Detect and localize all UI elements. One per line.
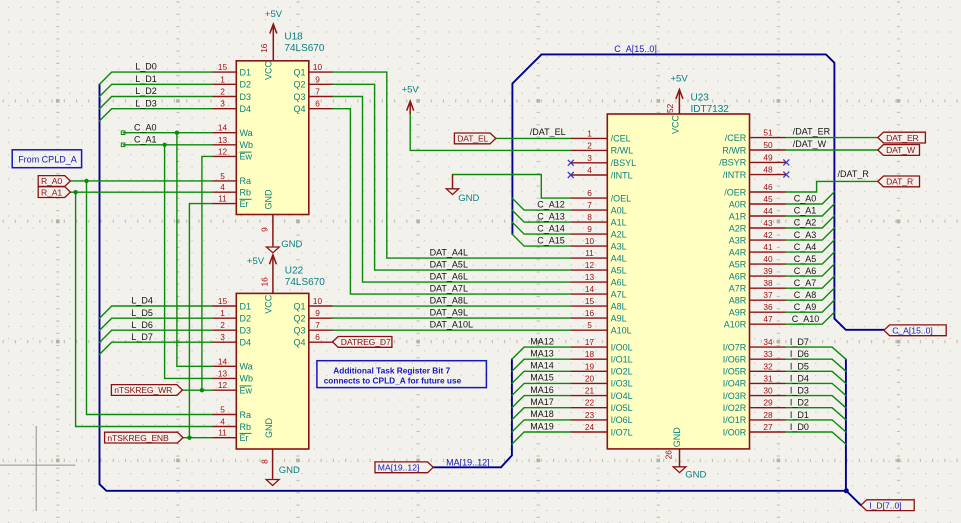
global label I_D[7..0] (861, 500, 914, 511)
svg-text:D2: D2 (240, 314, 252, 324)
svg-text:10: 10 (585, 236, 595, 246)
net label MA14 (530, 361, 554, 371)
net label L_D0 (135, 62, 157, 72)
U22 pin 11 (Er) (213, 428, 252, 443)
svg-text:D3: D3 (240, 92, 252, 102)
U23 pin 3 (/BSYL) (571, 153, 636, 168)
svg-text:22: 22 (585, 398, 595, 408)
wire DAT_A8L (U22 Q1 to U23 A8L) (332, 305, 571, 307)
svg-text:VCC: VCC (263, 294, 273, 314)
net label I_D3 (790, 386, 809, 396)
svg-text:A9R: A9R (729, 308, 747, 318)
svg-text:+5V: +5V (671, 74, 689, 85)
svg-text:15: 15 (585, 296, 595, 306)
net label DAT_A10L (430, 320, 473, 330)
wire /DAT_R (U23 /OER to DAT_R label) (786, 181, 878, 192)
net label I_D0 (790, 422, 809, 432)
svg-text:14: 14 (218, 356, 228, 366)
svg-text:I/O2R: I/O2R (723, 403, 747, 413)
U23 pin 50 (R/WR) (722, 140, 786, 155)
svg-text:C_A9: C_A9 (794, 302, 817, 312)
power +5V at U22 pin 16 (247, 255, 277, 294)
global label DATREG_D7 (333, 337, 392, 348)
svg-text:48: 48 (763, 165, 773, 175)
svg-text:MA12: MA12 (530, 336, 554, 346)
U23 pin 28 (I/O1R) (723, 410, 786, 425)
svg-text:Ra: Ra (240, 176, 252, 186)
svg-text:20: 20 (585, 373, 595, 383)
svg-text:D1: D1 (240, 67, 252, 77)
U23 pin 5 (A10L) (571, 320, 632, 335)
net label /DAT_ER (793, 126, 831, 136)
svg-text:Rb: Rb (240, 188, 252, 198)
ground GND at U22 pin 8 (266, 449, 300, 486)
IC U23 IDT7132 body (607, 114, 749, 449)
svg-text:2: 2 (220, 320, 225, 330)
net label C_A[15..0] bus name (614, 44, 657, 54)
U18 pin 16 number (259, 43, 269, 53)
wire I_D5 with bus entry (786, 371, 846, 383)
svg-text:DAT_A4L: DAT_A4L (430, 248, 468, 258)
svg-text:Additional Task Register Bit 7: Additional Task Register Bit 7 (333, 365, 450, 375)
bus MA[19..12] (433, 359, 512, 467)
svg-text:15: 15 (218, 296, 228, 306)
svg-text:A9L: A9L (611, 313, 627, 323)
svg-text:8: 8 (587, 212, 592, 222)
U23 pin 32 (I/O5R) (723, 361, 786, 376)
net label L_D2 (135, 86, 157, 96)
svg-text:11: 11 (218, 428, 227, 438)
global label R_A0 (38, 176, 70, 187)
U23 pin 21 (I/O4L) (571, 386, 633, 401)
U18 pin 4 (Rb) (213, 182, 251, 197)
wire C_A12 with bus entry (512, 198, 571, 210)
svg-text:9: 9 (259, 227, 269, 232)
U18 GND pin 9 name (263, 189, 273, 210)
net label I_D4 (790, 373, 809, 383)
svg-text:I/O2L: I/O2L (611, 367, 633, 377)
svg-text:40: 40 (763, 254, 773, 264)
net label DAT_A7L (430, 284, 468, 294)
svg-text:DAT_A7L: DAT_A7L (430, 284, 468, 294)
net label C_A5 (794, 254, 817, 264)
svg-text:A4L: A4L (611, 253, 627, 263)
net label /DAT_EL (530, 127, 566, 137)
bus I_D[7..0] left vertical + bottom horizontal (100, 84, 861, 505)
wire C_A9 with bus entry (786, 300, 834, 312)
svg-text:GND: GND (458, 193, 479, 204)
svg-text:7: 7 (315, 87, 320, 97)
svg-text:DATREG_D7: DATREG_D7 (341, 337, 391, 347)
svg-text:C_A15: C_A15 (537, 235, 565, 245)
svg-text:5: 5 (587, 320, 592, 330)
junction nTSKREG_ENB (187, 436, 191, 440)
svg-text:I_D3: I_D3 (790, 386, 809, 396)
svg-text:Q4: Q4 (293, 104, 305, 114)
net label MA17 (530, 397, 554, 407)
svg-text:52: 52 (665, 103, 675, 113)
power +5V at U18 pin 16 (265, 9, 283, 61)
net label C_A8 (794, 290, 817, 300)
svg-text:L_D5: L_D5 (131, 308, 153, 318)
svg-text:IDT7132: IDT7132 (691, 104, 730, 115)
svg-text:12: 12 (218, 146, 228, 156)
svg-text:C_A8: C_A8 (794, 290, 817, 300)
svg-text:GND: GND (672, 427, 682, 448)
U23 pin 10 (A3L) (571, 236, 627, 251)
svg-text:D4: D4 (240, 104, 252, 114)
wire MA14 with bus entry (512, 371, 571, 383)
svg-text:GND: GND (263, 189, 273, 210)
wire C_A15 with bus entry (512, 234, 571, 246)
U23 pin 20 (I/O3L) (571, 373, 633, 388)
U18 pin 2 (D3) (213, 87, 251, 102)
svg-text:A6R: A6R (729, 271, 747, 281)
svg-text:9: 9 (587, 224, 592, 234)
wire C_A0 with bus entry (786, 192, 834, 204)
U22 pin 8 number (260, 459, 270, 464)
svg-text:19: 19 (585, 361, 595, 371)
power +5V at U23 pin 52 (671, 74, 689, 114)
wire DAT_A6L (U18 Q3 to U23 A6L) (332, 97, 571, 283)
wire C_A8 with bus entry (786, 288, 834, 300)
svg-text:74LS670: 74LS670 (284, 43, 324, 54)
svg-text:33: 33 (763, 349, 773, 359)
svg-text:1: 1 (220, 308, 225, 318)
wire C_A14 with bus entry (512, 222, 571, 234)
svg-text:C_A14: C_A14 (537, 223, 565, 233)
svg-text:12: 12 (218, 380, 228, 390)
svg-text:2: 2 (220, 87, 225, 97)
svg-text:47: 47 (763, 314, 773, 324)
svg-text:A2L: A2L (611, 229, 627, 239)
svg-text:4: 4 (587, 165, 592, 175)
U18 pin 11 (Er) (213, 194, 252, 209)
U23 pin 27 (I/O0R) (723, 422, 786, 437)
svg-text:DAT_A8L: DAT_A8L (430, 295, 468, 305)
U23 pin 36 (A9R) (729, 302, 786, 317)
svg-text:C_A0: C_A0 (134, 122, 157, 132)
svg-text:DAT_W: DAT_W (886, 145, 916, 155)
wire I_D1 with bus entry (786, 420, 846, 432)
svg-text:+5V: +5V (402, 85, 420, 96)
svg-text:DAT_R: DAT_R (886, 177, 913, 187)
svg-text:I_D7: I_D7 (790, 337, 809, 347)
svg-text:U18: U18 (284, 32, 303, 43)
svg-text:21: 21 (585, 386, 595, 396)
svg-text:16: 16 (585, 308, 595, 318)
U23 pin 34 (I/O7R) (723, 337, 786, 352)
U18 VCC pin 16 name (263, 61, 273, 81)
wire C_A4 with bus entry (786, 240, 834, 252)
svg-text:4: 4 (220, 182, 225, 192)
wire MA17 with bus entry (512, 408, 571, 420)
wire MA18 with bus entry (512, 420, 571, 432)
svg-text:7: 7 (315, 320, 320, 330)
U23 pin 38 (A7R) (729, 278, 786, 293)
wire +5V to U23 R/WL (410, 114, 571, 150)
wire /DAT_W (U23 R/WR to DAT_W label) (786, 149, 878, 151)
net label DAT_A5L (430, 260, 468, 270)
global label MA[19..12] (375, 462, 433, 473)
U23 pin 47 (A10R) (724, 314, 786, 329)
svg-text:Q1: Q1 (293, 67, 305, 77)
svg-text:14: 14 (218, 123, 228, 133)
U22 pin 9 (Q2) (293, 308, 332, 323)
U18 reference and value (284, 32, 324, 54)
net label DAT_A4L (430, 248, 468, 258)
svg-text:I/O4L: I/O4L (611, 391, 633, 401)
U23 GND pin 26 name (672, 427, 682, 448)
svg-text:A8L: A8L (611, 301, 627, 311)
bus C_A[15..0] top + right vertical (542, 54, 884, 329)
U23 pin 16 (A9L) (571, 308, 627, 323)
svg-text:26: 26 (663, 450, 673, 460)
net label MA19 (530, 421, 554, 431)
net label C_A15 (537, 235, 565, 245)
net label C_A1 (794, 206, 817, 216)
svg-text:I_D1: I_D1 (790, 410, 809, 420)
svg-text:nTSKREG_ENB: nTSKREG_ENB (107, 433, 169, 443)
junction nTSKREG_WR (200, 388, 204, 392)
svg-text:9: 9 (315, 308, 320, 318)
svg-text:nTSKREG_WR: nTSKREG_WR (114, 385, 172, 395)
svg-text:15: 15 (218, 62, 228, 72)
wire C_A1 with bus entry (786, 204, 834, 216)
U23 pin 51 (/CER) (725, 128, 786, 143)
net label L_D4 (131, 296, 153, 306)
svg-text:51: 51 (763, 128, 773, 138)
svg-text:Q4: Q4 (293, 338, 305, 348)
svg-text:A1L: A1L (611, 217, 627, 227)
svg-text:49: 49 (763, 152, 773, 162)
wire I_D0 with bus entry (786, 432, 846, 444)
U23 pin 31 (I/O4R) (723, 373, 786, 388)
svg-text:A5R: A5R (729, 259, 747, 269)
wire L_D3 with bus entry (100, 109, 213, 121)
svg-text:14: 14 (585, 284, 595, 294)
svg-text:VCC: VCC (670, 115, 680, 135)
U18 pin 3 (D4) (213, 99, 251, 114)
wire L_D0 with bus entry (100, 72, 213, 84)
svg-text:MA[19..12]: MA[19..12] (446, 457, 490, 467)
U22 pin 7 (Q3) (293, 320, 332, 335)
svg-text:MA[19..12]: MA[19..12] (378, 463, 420, 473)
svg-text:C_A[15..0]: C_A[15..0] (614, 44, 657, 54)
U22 pin 15 (D1) (213, 296, 251, 311)
U23 pin 43 (A2R) (729, 218, 786, 233)
svg-text:C_A0: C_A0 (794, 194, 817, 204)
svg-text:12: 12 (585, 260, 595, 270)
svg-text:A8R: A8R (729, 296, 747, 306)
wire nTSKREG_ENB net (U18 Er / U22 Er) (183, 204, 213, 438)
net label DAT_A9L (430, 308, 468, 318)
svg-text:6: 6 (587, 188, 592, 198)
svg-text:1: 1 (220, 74, 225, 84)
U23 pin 11 (A4L) (571, 248, 627, 263)
U23 pin 52 number (665, 103, 675, 113)
svg-text:Wa: Wa (240, 362, 253, 372)
wire C_A13 with bus entry (512, 210, 571, 222)
U22 pin 5 (Ra) (213, 405, 251, 420)
svg-text:Q3: Q3 (293, 326, 305, 336)
svg-text:L_D1: L_D1 (135, 74, 157, 84)
U23 reference and value (691, 93, 730, 116)
svg-text:44: 44 (763, 206, 773, 216)
U23 pin 13 (A6L) (571, 272, 627, 287)
svg-text:L_D0: L_D0 (135, 62, 157, 72)
svg-text:D1: D1 (240, 301, 252, 311)
U18 pin 1 (D2) (213, 74, 251, 89)
U18 pin 14 (Wa) (213, 123, 253, 138)
svg-text:3: 3 (587, 153, 592, 163)
U23 pin 23 (I/O6L) (571, 410, 633, 425)
wire MA19 with bus entry (512, 432, 571, 444)
svg-text:41: 41 (763, 242, 773, 252)
net label MA16 (530, 385, 554, 395)
junction R_A0 (84, 179, 88, 183)
svg-text:I/O6R: I/O6R (723, 355, 747, 365)
U23 pin 33 (I/O6R) (723, 349, 786, 364)
unconnected wire end C_A1 (121, 143, 125, 147)
U23 pin 12 (A5L) (571, 260, 627, 275)
svg-text:U23: U23 (691, 93, 710, 104)
IC U22 74LS670 body (236, 293, 308, 449)
U23 pin 45 (A0R) (729, 194, 786, 209)
bus I_D[7..0] right vertical (845, 359, 847, 491)
svg-text:Rb: Rb (240, 422, 252, 432)
svg-text:A2R: A2R (729, 223, 747, 233)
svg-text:Er: Er (240, 199, 249, 209)
U22 pin 14 (Wa) (213, 356, 253, 371)
net label I_D2 (790, 398, 809, 408)
svg-text:I/O1R: I/O1R (723, 415, 747, 425)
U18 pin 7 (Q3) (293, 87, 332, 102)
wire MA16 with bus entry (512, 396, 571, 408)
no-connect X on U23 /INTR (783, 172, 789, 178)
svg-text:R/WL: R/WL (611, 146, 634, 156)
svg-text:C_A10: C_A10 (792, 314, 820, 324)
svg-text:DAT_A6L: DAT_A6L (430, 272, 468, 282)
svg-text:17: 17 (585, 337, 595, 347)
net label L_D5 (131, 308, 153, 318)
U22 pin 3 (D4) (213, 332, 251, 347)
svg-text:28: 28 (763, 410, 773, 420)
svg-text:C_A[15..0]: C_A[15..0] (892, 326, 933, 336)
net label C_A14 (537, 223, 565, 233)
svg-text:+5V: +5V (265, 9, 283, 20)
wire I_D7 with bus entry (786, 347, 846, 359)
svg-text:DAT_A5L: DAT_A5L (430, 260, 468, 270)
svg-text:/DAT_EL: /DAT_EL (530, 127, 566, 137)
net label C_A13 (537, 211, 565, 221)
U23 pin 29 (I/O2R) (723, 398, 786, 413)
net label MA[19..12] bus name (446, 457, 490, 467)
svg-text:A4R: A4R (729, 247, 747, 257)
ground GND at U23 pin 26 (673, 449, 706, 481)
svg-text:/CEL: /CEL (611, 134, 631, 144)
svg-text:2: 2 (587, 140, 592, 150)
U23 pin 30 (I/O3R) (723, 386, 786, 401)
svg-text:/BSYR: /BSYR (719, 158, 747, 168)
svg-text:11: 11 (585, 248, 594, 258)
svg-text:A3R: A3R (729, 235, 747, 245)
svg-text:L_D3: L_D3 (135, 98, 157, 108)
net label C_A0 (794, 194, 817, 204)
svg-text:MA19: MA19 (530, 421, 554, 431)
svg-text:1: 1 (587, 128, 592, 138)
wire C_A6 with bus entry (786, 264, 834, 276)
wire I_D4 with bus entry (786, 383, 846, 395)
U18 pin 9 number (259, 227, 269, 232)
svg-text:27: 27 (763, 422, 773, 432)
net label I_D6 (790, 349, 809, 359)
wire C_A1 net (U18 Wb / U22 Wb) (123, 145, 212, 379)
svg-text:DAT_ER: DAT_ER (886, 133, 919, 143)
U22 pin 2 (D3) (213, 320, 251, 335)
svg-text:L_D6: L_D6 (131, 320, 153, 330)
svg-text:Ew: Ew (240, 386, 253, 396)
net label MA18 (530, 409, 554, 419)
wire DAT_A7L (U18 Q4 to U23 A7L) (332, 109, 571, 294)
svg-text:R/WR: R/WR (722, 145, 746, 155)
svg-text:C_A3: C_A3 (794, 230, 817, 240)
svg-text:42: 42 (763, 230, 773, 240)
svg-text:A10R: A10R (724, 320, 747, 330)
wire MA13 with bus entry (512, 359, 571, 371)
svg-text:GND: GND (685, 470, 706, 481)
U22 pin 4 (Rb) (213, 417, 251, 432)
U18 pin 15 (D1) (213, 62, 251, 77)
svg-text:43: 43 (763, 218, 773, 228)
wire C_A3 with bus entry (786, 228, 834, 240)
U22 VCC pin 16 name (263, 294, 273, 314)
U23 pin 46 (/OER) (724, 182, 786, 197)
U18 pin 6 (Q4) (293, 99, 332, 114)
wire DAT_A9L (U22 Q2 to U23 A9L) (332, 317, 571, 319)
U23 pin 42 (A3R) (729, 230, 786, 245)
net label L_D3 (135, 98, 157, 108)
svg-text:L_D4: L_D4 (131, 296, 153, 306)
junction R_A1 (73, 190, 77, 194)
svg-text:VCC: VCC (263, 61, 273, 81)
svg-text:32: 32 (763, 361, 773, 371)
net label DAT_A8L (430, 295, 468, 305)
ground GND at U18 pin 9 (266, 215, 302, 253)
wire C_A5 with bus entry (786, 252, 834, 264)
svg-text:34: 34 (763, 337, 773, 347)
svg-text:Q2: Q2 (293, 80, 305, 90)
svg-text:C_A1: C_A1 (134, 135, 157, 145)
svg-text:L_D2: L_D2 (135, 86, 157, 96)
wire C_A7 with bus entry (786, 276, 834, 288)
U22 pin 13 (Wb) (213, 368, 253, 383)
svg-text:GND: GND (279, 465, 300, 476)
svg-text:I/O5L: I/O5L (611, 403, 633, 413)
U22 pin 16 number (259, 277, 269, 287)
U23 pin 48 (/INTR) (723, 165, 786, 180)
svg-text:Q3: Q3 (293, 92, 305, 102)
svg-text:/DAT_W: /DAT_W (793, 139, 827, 149)
svg-text:I/O4R: I/O4R (723, 379, 747, 389)
svg-text:C_A7: C_A7 (794, 278, 817, 288)
global label DAT_EL (454, 133, 495, 144)
net label DAT_A6L (430, 272, 468, 282)
svg-text:/OEL: /OEL (611, 193, 632, 203)
U22 GND pin 8 name (264, 418, 274, 439)
svg-text:18: 18 (585, 349, 595, 359)
wire L_D4 with bus entry (100, 306, 213, 318)
